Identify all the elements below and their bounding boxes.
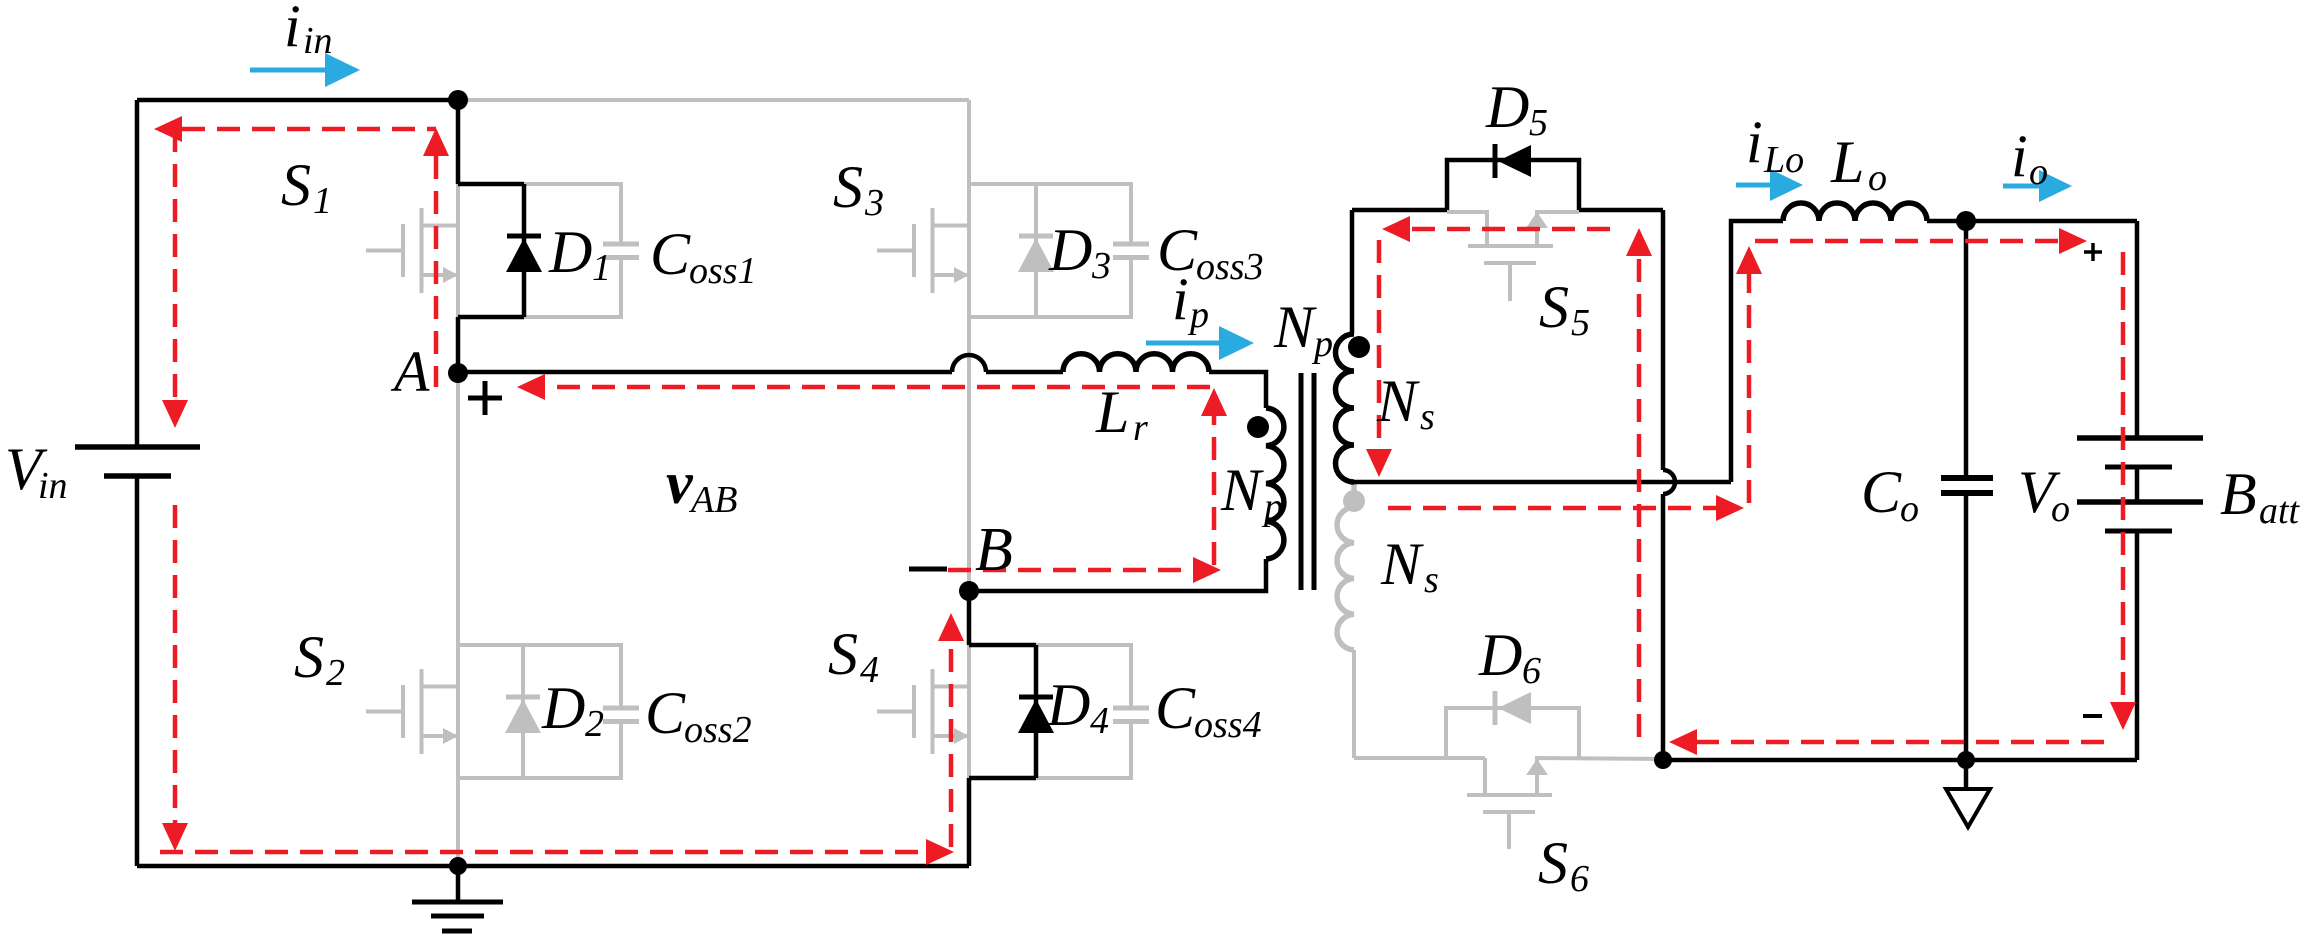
wire: red current path, up riser to Lo <box>1747 274 1752 503</box>
node A <box>448 363 468 383</box>
svg-text:1: 1 <box>313 180 332 222</box>
svg-text:4: 4 <box>860 649 879 691</box>
svg-text:oss3: oss3 <box>1196 246 1264 288</box>
svg-text:p: p <box>1187 294 1209 336</box>
transformer primary winding Np <box>1266 408 1284 559</box>
arrow shaft: iLo current direction <box>1736 183 1772 188</box>
transistor S3 (MOSFET symbol) <box>877 208 969 293</box>
arrowhead: red, A wire pointing left <box>517 374 545 400</box>
arrow shaft: io current direction <box>2003 184 2041 189</box>
wire: center tap to output riser <box>1354 480 1731 485</box>
arrowhead: red, B wire pointing right <box>1193 557 1221 583</box>
wire: node B down to S4 jog <box>967 591 972 645</box>
node B <box>959 581 979 601</box>
transistor S6 (MOSFET symbol, rotated) <box>1467 758 1661 849</box>
transistor S5 (MOSFET symbol, rotated) <box>1447 212 1579 301</box>
svg-text:r: r <box>1133 407 1148 449</box>
arrow shaft: ip current direction <box>1146 341 1221 346</box>
wire: gray secondary return to output node <box>1354 756 1485 760</box>
wire: S4 source stub to bottom rail <box>967 778 972 866</box>
wire: red current path, left rail lower <box>173 505 178 823</box>
battery Vin <box>75 447 200 476</box>
transistor S1 (MOSFET symbol) <box>366 208 458 293</box>
wire: red current path, up through S1 <box>434 156 439 387</box>
wire: S2 leg vertical from node A to bottom rail <box>456 372 460 866</box>
wire: S5 box top rail (left part) <box>1352 208 1447 213</box>
arrowhead: red, center tap wire pointing right <box>1716 495 1744 521</box>
arrowhead: iin <box>325 53 360 87</box>
wire: bottom rail <box>137 864 969 869</box>
wire: bottom output rail <box>1663 758 2137 763</box>
inductor Lo <box>1783 203 1927 221</box>
svg-text:o: o <box>2029 151 2048 193</box>
diode D6 (gray, antiparallel with S6) <box>1446 691 1579 758</box>
svg-text:C: C <box>1861 459 1902 525</box>
wire: S1 source stub to node A <box>456 317 461 372</box>
arrowhead: red, S1 path pointing up <box>423 128 449 156</box>
svg-text:3: 3 <box>864 182 884 224</box>
wire: red current path, down through battery <box>2121 252 2126 702</box>
node: primary polarity dot <box>1247 416 1269 438</box>
wire: red current path, up right side of S5 box <box>1637 256 1642 737</box>
node: center-tap polarity dot (gray) <box>1343 490 1365 512</box>
capacitor Coss3 (gray snubber box) <box>1036 184 1149 317</box>
wire: S1 jog from D1 branch (bottom) <box>458 315 524 320</box>
svg-text:C: C <box>650 221 691 287</box>
arrowhead: red, battery path pointing down <box>2110 702 2136 730</box>
diode D2 (gray body diode of S2) <box>458 645 541 778</box>
svg-text:2: 2 <box>326 652 345 694</box>
battery Batt <box>2077 221 2203 760</box>
wire: S4 channel segment of right leg <box>967 645 971 778</box>
wire: Lr to transformer primary <box>1209 372 1266 408</box>
inductor Lr <box>1063 354 1209 372</box>
capacitor Coss4 (gray snubber box) <box>1036 645 1149 778</box>
wire: left rail upper (Vin plus lead) <box>135 100 140 447</box>
arrowhead: red, left rail lower pointing down <box>162 823 188 851</box>
svg-text:p: p <box>1261 486 1283 528</box>
svg-text:D: D <box>1478 622 1522 688</box>
svg-text:oss4: oss4 <box>1194 704 1262 746</box>
arrowhead: ip <box>1219 326 1254 360</box>
capacitor Coss1 (gray snubber box) <box>524 184 639 317</box>
wire: secondary top lead <box>1350 210 1355 334</box>
svg-text:L: L <box>1095 379 1129 445</box>
wire: S1 jog to D1 branch (top) <box>458 182 524 187</box>
svg-text:A: A <box>390 339 430 404</box>
diode D5 (series with S5 rail) <box>1447 144 1579 210</box>
svg-text:N: N <box>1220 457 1264 523</box>
svg-text:D: D <box>1046 672 1090 738</box>
svg-text:6: 6 <box>1522 650 1541 692</box>
wire: red current path, down through Ns <box>1377 240 1382 449</box>
arrowhead: red, top rail pointing left <box>154 116 182 142</box>
wire: red current path, left rail upper <box>173 129 178 400</box>
wire: S1 drain stub <box>456 100 461 184</box>
plus sign at node A <box>468 381 502 415</box>
node: output return junction <box>1654 751 1672 769</box>
wire: S5 box right side (with hop over center-tap wire) <box>1663 210 1675 760</box>
svg-text:i: i <box>1172 266 1189 332</box>
svg-text:S: S <box>833 154 863 220</box>
wire: node A to Lr (with hop over S3 leg) <box>458 355 1063 372</box>
svg-text:v: v <box>666 450 694 516</box>
wire: red current path, under Lo to output <box>1755 239 2059 244</box>
svg-text:o: o <box>2051 488 2070 530</box>
svg-text:N: N <box>1376 368 1420 434</box>
svg-text:C: C <box>645 680 686 746</box>
diode D3 (gray body diode of S3) <box>969 184 1054 317</box>
wire: red current path, up through primary <box>1212 416 1217 565</box>
svg-text:5: 5 <box>1571 302 1590 344</box>
wire: red current path, bottom output rail <box>1697 740 2104 745</box>
svg-text:s: s <box>1420 396 1435 438</box>
wire: top rail from Vin to top node <box>137 98 458 103</box>
arrowhead: red, S5 top pointing left <box>1382 216 1410 242</box>
wire: S3/S4 leg vertical (gray) from top rail down to node B <box>967 100 971 591</box>
wire: S5 box top rail (right part) <box>1579 208 1663 213</box>
svg-text:S: S <box>281 152 311 218</box>
arrowhead: red, left rail pointing down <box>162 400 188 428</box>
svg-text:D: D <box>1485 74 1529 140</box>
svg-text:2: 2 <box>585 703 604 745</box>
node: top rail junction <box>448 90 468 110</box>
minus sign at node B <box>909 567 947 572</box>
ground (output, triangle) <box>1946 760 1990 827</box>
transformer secondary winding Ns (upper) <box>1336 334 1354 482</box>
svg-text:S: S <box>828 621 858 687</box>
transistor S4 (MOSFET symbol) <box>877 669 969 754</box>
svg-text:D: D <box>1048 217 1092 283</box>
svg-text:B: B <box>975 516 1013 584</box>
wire: red current path, up through S4 <box>949 641 954 847</box>
svg-text:AB: AB <box>688 479 737 521</box>
transistor S2 (MOSFET symbol) <box>366 669 458 754</box>
wire: red current path, along center tap wire <box>1388 506 1716 511</box>
svg-text:4: 4 <box>1090 700 1109 742</box>
wire: S4 jog from D4 branch (bottom) <box>969 776 1036 781</box>
plus sign at output <box>2084 243 2102 261</box>
svg-text:Lo: Lo <box>1763 139 1804 181</box>
svg-text:i: i <box>2011 123 2028 189</box>
svg-text:in: in <box>38 465 68 507</box>
svg-text:s: s <box>1424 559 1439 601</box>
svg-text:in: in <box>303 20 333 62</box>
node: secondary polarity dot <box>1348 336 1370 358</box>
node: output top junction <box>1956 211 1976 231</box>
arrowhead: red, bottom output rail pointing left <box>1669 729 1697 755</box>
svg-text:p: p <box>1311 323 1333 365</box>
svg-text:o: o <box>1900 488 1919 530</box>
svg-text:5: 5 <box>1529 102 1548 144</box>
arrowhead: red, S5 right side pointing up <box>1626 228 1652 256</box>
wire: red current path, node B to primary <box>948 568 1193 573</box>
wire: red current path, back along A wire <box>545 385 1210 390</box>
minus sign at output <box>2083 714 2102 718</box>
svg-text:oss1: oss1 <box>689 250 757 292</box>
svg-text:S: S <box>1539 274 1569 340</box>
wire: Lo to battery branch <box>1927 219 2137 224</box>
diode D1 (body diode of S1) <box>506 184 542 317</box>
svg-text:B: B <box>2220 461 2257 527</box>
wire: riser from center tap wire up to Lo <box>1731 221 1783 482</box>
capacitor Co <box>1941 221 1993 760</box>
arrowhead: red, S4 path pointing up <box>938 613 964 641</box>
svg-text:N: N <box>1380 531 1424 597</box>
transformer core <box>1301 373 1314 590</box>
svg-text:o: o <box>1868 157 1887 199</box>
svg-text:D: D <box>548 219 592 285</box>
wire: red current path, bottom rail <box>160 850 926 855</box>
svg-text:L: L <box>1830 129 1864 195</box>
capacitor Coss2 (gray snubber box) <box>523 645 639 778</box>
arrowhead: red, bottom rail pointing right <box>926 839 954 865</box>
wire: gray top rail from top node to S3 leg <box>456 98 969 102</box>
arrowhead: red, riser pointing up <box>1736 246 1762 274</box>
diode D4 (body diode of S4) <box>1018 645 1054 778</box>
svg-text:3: 3 <box>1091 245 1111 287</box>
svg-text:1: 1 <box>592 247 611 289</box>
arrowhead: io <box>2039 170 2072 202</box>
svg-text:att: att <box>2259 490 2301 532</box>
node: Co bottom junction <box>1957 751 1975 769</box>
svg-text:N: N <box>1273 294 1317 360</box>
arrowhead: red, Ns path pointing down <box>1366 449 1392 477</box>
svg-text:i: i <box>1746 109 1763 175</box>
node: bottom rail / ground junction <box>449 857 467 875</box>
svg-text:S: S <box>294 624 324 690</box>
svg-text:D: D <box>541 675 585 741</box>
wire: primary bottom to node B <box>969 559 1266 591</box>
wire: S1 channel segment of left leg <box>456 184 460 317</box>
arrowhead: red, primary path pointing up <box>1201 388 1227 416</box>
arrowhead: red, output top pointing right <box>2059 228 2087 254</box>
svg-text:i: i <box>284 0 301 59</box>
arrowhead: iLo <box>1770 169 1803 201</box>
wire: left rail lower (Vin minus lead) <box>135 476 140 866</box>
wire: S4 jog to D4 branch (top) <box>969 643 1036 648</box>
svg-text:oss2: oss2 <box>684 709 752 751</box>
wire: red current path, top rail <box>182 127 436 132</box>
svg-text:C: C <box>1155 675 1196 741</box>
ground (input rail) <box>412 866 503 931</box>
svg-text:6: 6 <box>1570 858 1589 900</box>
transformer secondary winding Ns (lower, gray) <box>1337 482 1354 758</box>
arrow shaft: iin current direction <box>250 68 327 73</box>
svg-text:S: S <box>1538 830 1568 896</box>
wire: red current path, along S5 box top <box>1410 227 1610 232</box>
